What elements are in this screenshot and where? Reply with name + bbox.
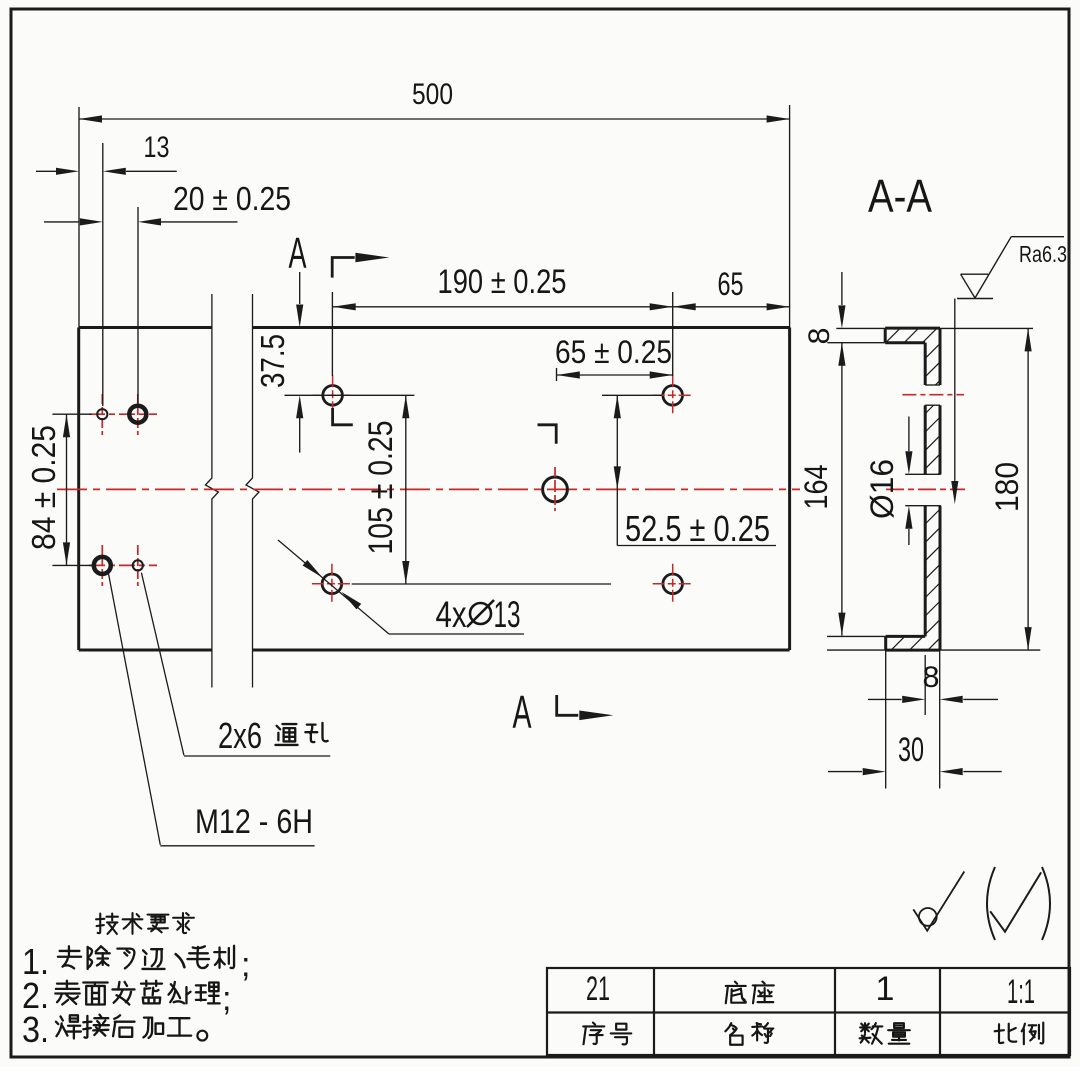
svg-text:8: 8 <box>803 328 836 345</box>
svg-text:105 ± 0.25: 105 ± 0.25 <box>362 421 400 555</box>
svg-text:52.5 ± 0.25: 52.5 ± 0.25 <box>625 508 770 549</box>
svg-text:65 ± 0.25: 65 ± 0.25 <box>555 334 672 370</box>
svg-text:Ø16: Ø16 <box>864 459 900 519</box>
svg-text:164: 164 <box>798 465 834 510</box>
svg-text:180: 180 <box>989 462 1025 512</box>
svg-text:2x6: 2x6 <box>218 715 262 756</box>
svg-text:20 ± 0.25: 20 ± 0.25 <box>173 180 291 217</box>
svg-text:A-A: A-A <box>868 170 932 222</box>
svg-text:Ra6.3: Ra6.3 <box>1019 241 1067 267</box>
svg-text:8: 8 <box>923 661 940 694</box>
svg-text:65: 65 <box>718 266 744 302</box>
svg-text:;: ; <box>241 946 250 984</box>
svg-text:1:1: 1:1 <box>1007 973 1035 1011</box>
svg-text:37.5: 37.5 <box>254 334 291 388</box>
svg-text:500: 500 <box>412 78 453 111</box>
svg-text:A: A <box>289 229 307 278</box>
svg-text:3.: 3. <box>22 1009 49 1050</box>
svg-text:190 ± 0.25: 190 ± 0.25 <box>438 263 567 301</box>
svg-text:A: A <box>513 686 532 738</box>
svg-text:4x: 4x <box>436 594 467 635</box>
svg-text:1: 1 <box>876 970 895 1008</box>
svg-text:M12 - 6H: M12 - 6H <box>195 803 313 841</box>
svg-text:13: 13 <box>494 594 521 635</box>
svg-text:84 ± 0.25: 84 ± 0.25 <box>25 425 62 550</box>
svg-text:;: ; <box>222 980 231 1018</box>
svg-text:21: 21 <box>586 970 610 1008</box>
svg-text:30: 30 <box>898 731 924 769</box>
svg-text:13: 13 <box>144 131 170 164</box>
